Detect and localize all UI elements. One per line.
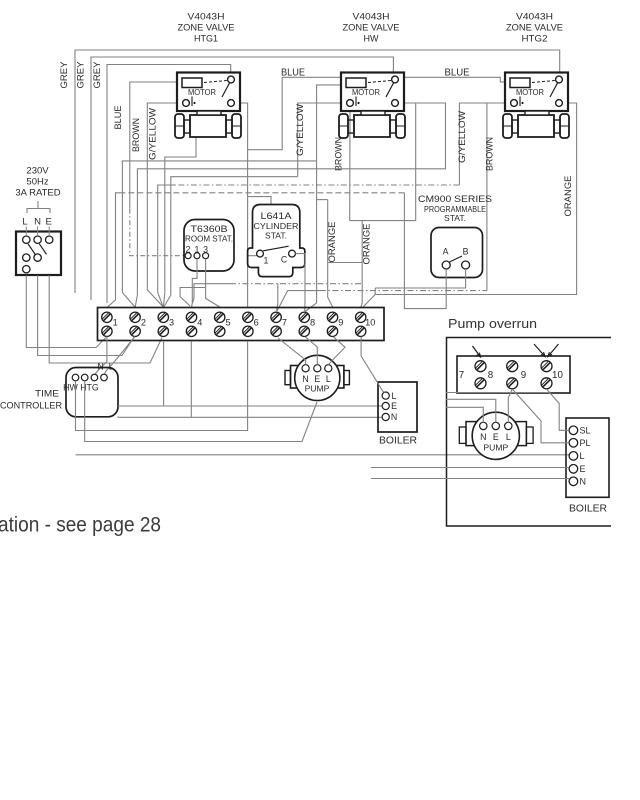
svg-text:BLUE: BLUE	[281, 68, 305, 79]
wire overrun pump E feed	[446, 399, 496, 422]
svg-text:N: N	[391, 412, 397, 422]
svg-text:ORANGE: ORANGE	[327, 222, 338, 263]
svg-text:GREY: GREY	[76, 61, 87, 89]
wire CM900 B to terminal 10	[375, 269, 465, 288]
svg-text:V4043H: V4043H	[353, 12, 390, 23]
wire grey 3 (HTG1 valve to terminal 1)	[107, 65, 231, 304]
overrun terminal strip	[457, 356, 570, 393]
svg-text:E: E	[580, 464, 586, 474]
svg-text:C: C	[281, 255, 288, 265]
controller terminal N	[91, 374, 98, 381]
svg-text:SL: SL	[580, 426, 591, 436]
overrun pump terminal L	[505, 422, 512, 429]
wire terminal 2 to controller L	[105, 337, 136, 375]
svg-text:T6360B: T6360B	[191, 224, 228, 234]
wire room stat 1 to terminal 4	[192, 259, 197, 307]
cylinder stat L641A body	[248, 205, 305, 277]
svg-text:N: N	[302, 374, 308, 384]
svg-text:HTG2: HTG2	[522, 34, 548, 45]
wire orange 1 (to terminal 9)	[328, 200, 333, 307]
svg-text:8: 8	[310, 317, 315, 327]
boiler terminal L	[382, 392, 389, 399]
svg-text:ZONE VALVE: ZONE VALVE	[178, 23, 235, 34]
mains terminal E	[46, 236, 53, 243]
svg-text:G/YELLOW: G/YELLOW	[148, 108, 159, 160]
svg-text:L: L	[392, 391, 397, 401]
svg-text:Pump overrun: Pump overrun	[448, 316, 537, 331]
svg-text:HW: HW	[63, 383, 78, 393]
wire grey 1 (HTG2 valve to terminal 1)	[75, 50, 560, 293]
mains bracket	[37, 201, 39, 208]
wire E label stub	[48, 227, 50, 237]
svg-text:8: 8	[488, 370, 494, 381]
wire H5 dashed (CM900 A feed)	[125, 192, 404, 194]
mains terminal row3 a	[23, 266, 30, 273]
svg-text:L: L	[506, 432, 511, 442]
svg-text:9: 9	[338, 317, 343, 327]
svg-text:7: 7	[459, 370, 464, 381]
room stat terminal 2	[185, 253, 191, 259]
wire grey 2 (HW valve to terminal 1)	[91, 57, 393, 300]
svg-text:ROOM STAT.: ROOM STAT.	[185, 234, 233, 244]
controller terminal HTG	[81, 374, 88, 381]
mains terminal L	[23, 236, 30, 243]
wire terminal 10 to boiler L	[361, 337, 385, 392]
wire g/yellow HW (valve to bus H3)	[298, 103, 350, 177]
wire CM900 A (U-loop to dashed H5)	[404, 193, 446, 309]
pump terminal N	[302, 365, 309, 372]
controller terminal HW	[72, 374, 79, 381]
wire terminal 1 to controller N	[95, 337, 107, 375]
cylinder stat switch blade	[263, 246, 288, 251]
mains terminal N	[34, 236, 41, 243]
mains link N	[39, 244, 46, 255]
pump terminal L	[325, 365, 332, 372]
svg-text:ORANGE: ORANGE	[563, 176, 574, 217]
terminal screws 1-10	[102, 312, 112, 322]
wire g/yellow HTG1 (valve body earth to terminal 3)	[163, 137, 196, 307]
terminal strip box	[98, 308, 385, 341]
svg-text:5: 5	[225, 317, 230, 327]
mains terminal row2 a	[23, 254, 30, 261]
wire overrun terminal 9 to boiler PL	[512, 389, 569, 443]
svg-text:BOILER: BOILER	[379, 435, 417, 447]
svg-text:N–L: N–L	[97, 362, 113, 372]
svg-text:N: N	[480, 432, 486, 442]
room stat terminal 1	[194, 253, 200, 259]
wire brown HTG1 (valve to terminal 3)	[147, 103, 186, 307]
room stat T6360B body	[184, 220, 234, 272]
svg-text:E: E	[314, 374, 320, 384]
wire H7 dashed link (terminal 7 to brown HTG2)	[277, 291, 320, 311]
svg-text:E: E	[493, 432, 499, 442]
wire orange 1 top link	[317, 199, 328, 201]
pump terminal E	[314, 365, 321, 372]
wire H1 neutral bus (blue drop to terminal 2)	[122, 161, 316, 307]
wire g/yellow HTG2 (valve to dash bus H4)	[459, 103, 514, 185]
svg-text:50Hz: 50Hz	[26, 177, 48, 188]
controller terminal L	[101, 374, 108, 381]
wire overrun boiler N line	[371, 478, 569, 480]
overrun arrow left to terminal 10	[534, 344, 545, 357]
wire controller to terminal 4 and boiler N	[118, 416, 386, 419]
wire overrun pump N feed	[446, 407, 483, 422]
svg-text:TIME: TIME	[35, 389, 59, 400]
wire overrun SL feed	[446, 392, 549, 394]
wire mains N to terminal 2	[38, 275, 134, 355]
wire brown HW (valve to orange bus)	[349, 107, 351, 221]
svg-text:9: 9	[521, 370, 526, 381]
wire mains L to terminal 1	[26, 275, 106, 347]
svg-text:MOTOR: MOTOR	[516, 87, 544, 97]
svg-text:L641A: L641A	[261, 211, 293, 221]
svg-text:BLUE: BLUE	[113, 106, 124, 130]
svg-text:L: L	[22, 217, 27, 228]
cylinder stat terminal 1	[257, 250, 264, 257]
svg-text:CONTROLLER: CONTROLLER	[0, 401, 62, 412]
wire orange HTG2 (switch to terminal 10)	[375, 103, 576, 295]
svg-text:1: 1	[264, 256, 269, 266]
svg-text:PUMP: PUMP	[305, 384, 330, 394]
CM900 terminal A	[442, 261, 450, 269]
wire room stat 3 link to terminal 4	[180, 288, 206, 307]
overrun arrow right to terminal 10	[548, 344, 559, 357]
svg-text:N: N	[580, 477, 587, 487]
wire blue HW (coil to terminal 8)	[305, 85, 341, 312]
wire N label stub	[37, 227, 39, 237]
svg-text:BROWN: BROWN	[131, 118, 142, 152]
boiler terminal N	[382, 413, 389, 420]
svg-text:L: L	[326, 374, 331, 384]
wire controller to terminal 3 and boiler E	[118, 405, 386, 407]
wire overrun boiler E line	[371, 467, 569, 469]
wire HTG1 switch to cylinder stat / terminal 6	[231, 103, 248, 307]
svg-text:STAT.: STAT.	[265, 231, 287, 241]
wire orange bus link	[328, 262, 363, 264]
svg-text:PL: PL	[580, 438, 591, 448]
wire cylinder C to terminal 8	[295, 254, 305, 311]
wire pump N to terminal 7	[278, 338, 306, 365]
svg-text:B: B	[463, 247, 469, 257]
svg-text:3A RATED: 3A RATED	[15, 188, 60, 199]
svg-text:A: A	[443, 247, 449, 257]
wire orange 2 (HW switch to terminal 10)	[361, 221, 362, 307]
zone valve motor HTG2	[505, 73, 568, 112]
svg-text:CYLINDER: CYLINDER	[254, 221, 299, 231]
svg-text:N: N	[34, 217, 41, 228]
svg-text:MOTOR: MOTOR	[352, 87, 380, 97]
wire H6 dashed link (terminal 4 to orange 2)	[193, 284, 231, 303]
svg-text:V4043H: V4043H	[188, 12, 225, 23]
zone valve motor HTG1	[177, 73, 240, 112]
CM900 box	[431, 228, 483, 278]
svg-text:10: 10	[552, 370, 563, 381]
cylinder stat terminal C	[289, 250, 296, 257]
svg-text:6: 6	[254, 317, 259, 327]
svg-text:ZONE VALVE: ZONE VALVE	[343, 23, 400, 34]
svg-text:HW: HW	[364, 34, 379, 45]
svg-text:MOTOR: MOTOR	[188, 87, 216, 97]
wire blue bus (HTG2 coil feed)	[248, 77, 283, 149]
wire controller HW to terminal 6	[76, 341, 248, 431]
boiler box	[378, 382, 417, 432]
boiler terminal E	[382, 402, 389, 409]
wire to overrun boiler L	[76, 455, 570, 456]
svg-text:2: 2	[141, 317, 146, 327]
wire HW brown feed (H2 to terminal 2)	[135, 103, 445, 307]
svg-text:BROWN: BROWN	[485, 137, 496, 171]
wire pump L to terminal 9	[328, 337, 345, 365]
svg-text:BLUE: BLUE	[445, 68, 470, 79]
svg-text:4: 4	[197, 317, 202, 327]
time controller box	[66, 368, 118, 417]
svg-text:1: 1	[113, 317, 118, 327]
wire H3 earth bus (g/yellow HW to terminal 3)	[164, 177, 298, 307]
svg-text:PROGRAMMABLE: PROGRAMMABLE	[424, 205, 486, 214]
svg-text:ZONE VALVE: ZONE VALVE	[506, 23, 563, 34]
svg-text:ORANGE: ORANGE	[362, 224, 373, 265]
wire blue HTG2 drop	[500, 81, 505, 83]
wire orange HTG2 diag to terminal 10	[363, 295, 375, 308]
svg-text:GREY: GREY	[59, 61, 70, 89]
svg-text:3: 3	[169, 317, 174, 327]
svg-text:PUMP: PUMP	[483, 443, 508, 453]
overrun pump terminal N	[480, 422, 487, 429]
overrun terminal screws	[475, 361, 486, 372]
wire room stat 3 to terminal 5	[206, 259, 220, 307]
overrun pump body	[466, 422, 526, 446]
wire tap to cylinder stat top	[248, 197, 271, 205]
wire brown HTG2 (valve to H7 bus)	[486, 103, 488, 291]
mains supply box	[16, 232, 61, 276]
svg-text:GREY: GREY	[92, 61, 103, 89]
mains link L	[28, 244, 35, 255]
wire overrun terminal 9 to pump L	[508, 389, 512, 422]
overrun pump circle	[472, 412, 519, 459]
pump overrun box	[447, 338, 612, 527]
wire blue HTG1 anticipator (dash-dot to room stat 2)	[130, 209, 185, 256]
pump circle	[295, 355, 340, 400]
CM900 switch blade	[450, 256, 463, 262]
svg-text:G/YELLOW: G/YELLOW	[295, 104, 306, 156]
wire mains E to terminal 3	[49, 275, 162, 363]
wire tap to cylinder stat terminal 1	[248, 255, 257, 257]
wire pump E to terminal 8	[305, 337, 317, 365]
CM900 terminal B	[462, 261, 470, 269]
overrun boiler terminals SL PL L E N	[569, 426, 578, 435]
wire blue HTG1 (solid part)	[130, 82, 177, 209]
svg-text:E: E	[391, 401, 397, 411]
overrun boiler box	[566, 418, 609, 497]
svg-text:HTG: HTG	[80, 383, 99, 393]
svg-text:V4043H: V4043H	[516, 12, 553, 23]
overrun arrow to terminal 8	[473, 346, 481, 357]
wire H6a (terminal 7 riser)	[277, 284, 278, 311]
svg-text:E: E	[46, 217, 52, 228]
wire H4 earth bus dashed (g/yellow HTG2 to terminal 3)	[175, 184, 459, 186]
svg-text:L: L	[580, 451, 585, 461]
wire L label stub	[25, 227, 27, 237]
svg-text:HTG1: HTG1	[194, 34, 218, 45]
svg-text:10: 10	[365, 317, 375, 327]
svg-text:CM900 SERIES: CM900 SERIES	[418, 193, 492, 204]
wire HW switch output (to orange 2)	[350, 103, 416, 221]
wire overrun terminal 10 to boiler SL	[547, 389, 570, 430]
svg-text:230V: 230V	[26, 166, 49, 177]
svg-text:ation - see page 28: ation - see page 28	[0, 514, 161, 537]
overrun pump terminal E	[492, 422, 499, 429]
svg-text:G/YELLOW: G/YELLOW	[457, 111, 468, 163]
svg-text:BOILER: BOILER	[569, 503, 607, 515]
wire controller HTG to pump	[85, 381, 317, 442]
svg-text:7: 7	[282, 317, 287, 327]
pump body	[291, 366, 344, 389]
mains terminal row2 b	[34, 254, 41, 261]
zone valve motor HW	[341, 73, 404, 112]
svg-text:BROWN: BROWN	[334, 137, 345, 171]
svg-text:STAT.: STAT.	[444, 214, 466, 223]
room stat terminal 3	[203, 253, 209, 259]
